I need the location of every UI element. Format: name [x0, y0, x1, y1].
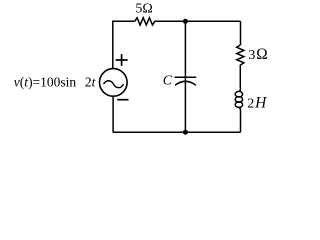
svg-text:3Ω: 3Ω [248, 46, 268, 63]
svg-text:5Ω: 5Ω [135, 2, 152, 17]
svg-text:2H: 2H [247, 94, 267, 111]
svg-text:v(t)=100sin 2t: v(t)=100sin 2t [14, 74, 97, 89]
svg-text:C: C [163, 74, 173, 89]
